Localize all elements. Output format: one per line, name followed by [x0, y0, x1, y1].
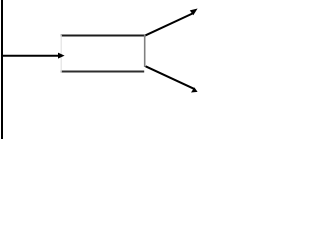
wire: horizontal arrow into box	[2, 53, 65, 59]
wire: vertical line at left edge	[1, 0, 3, 139]
wire: lower diagonal arrow	[146, 66, 198, 92]
node: box (rectangle)	[61, 35, 146, 73]
wire: upper diagonal arrow	[146, 9, 198, 36]
